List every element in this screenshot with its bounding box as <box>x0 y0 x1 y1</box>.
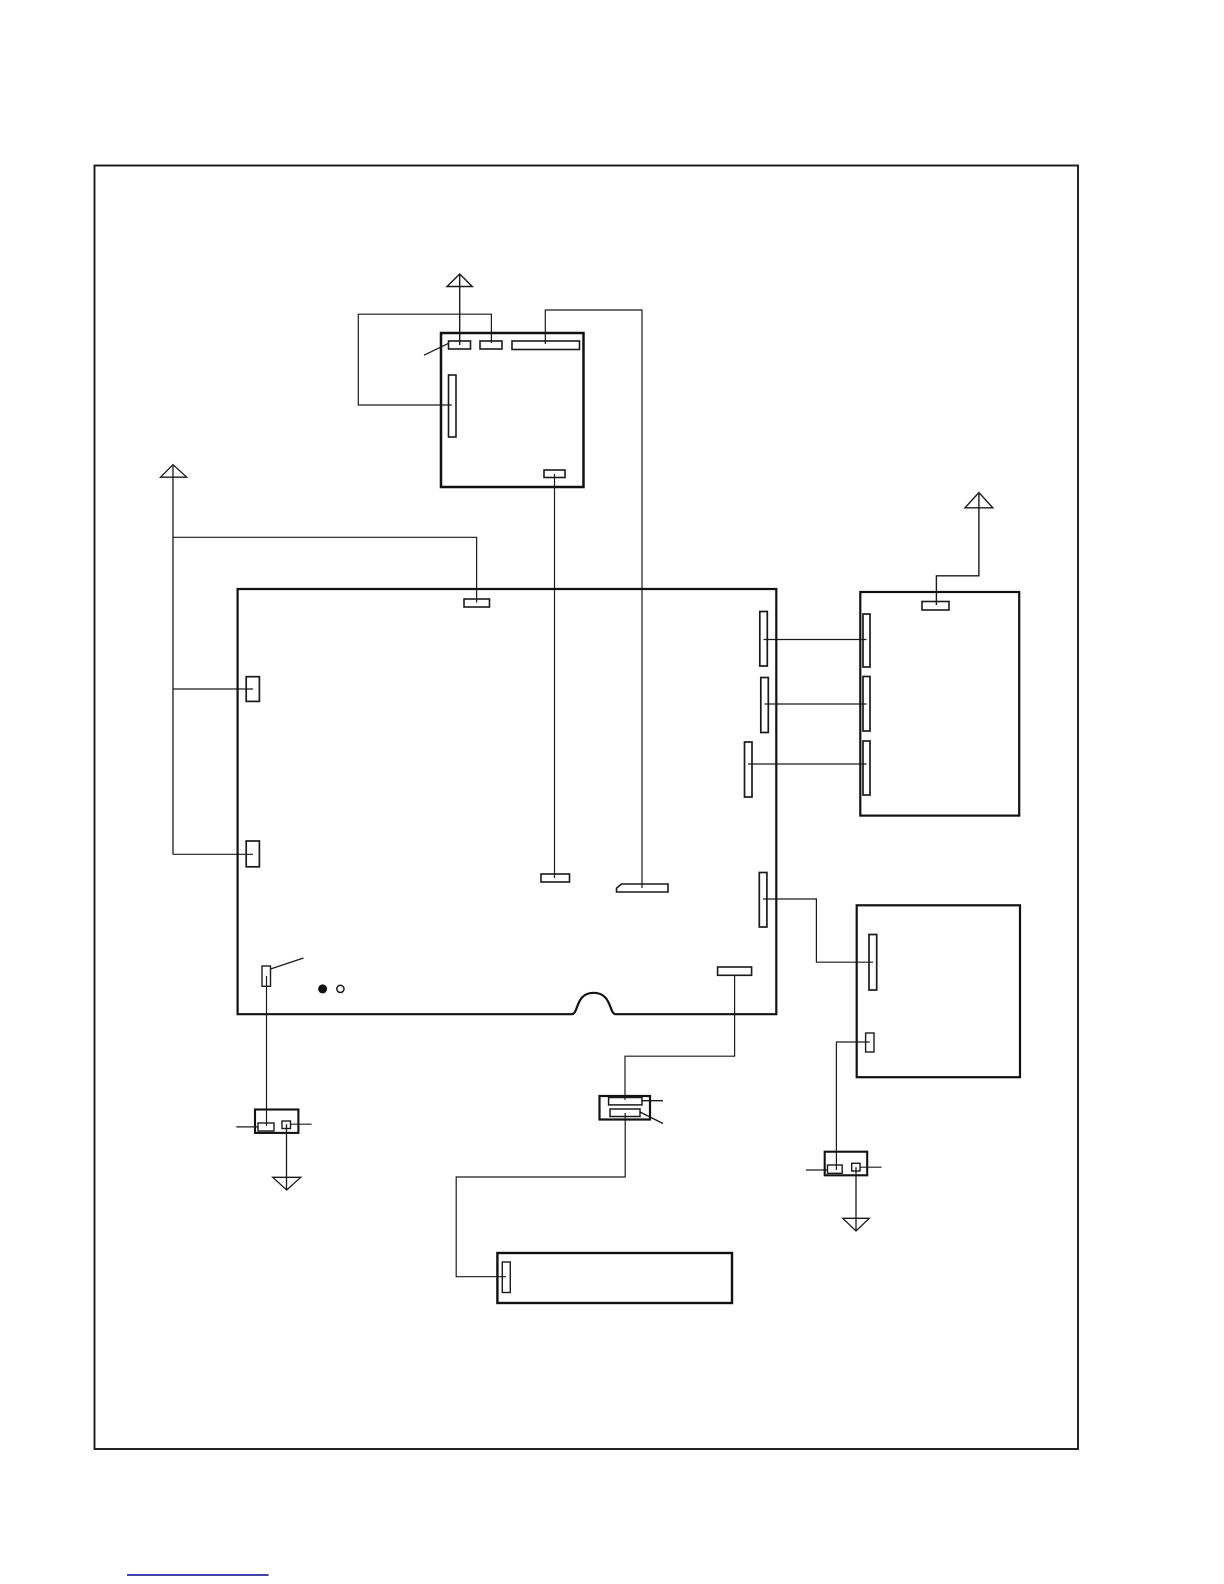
wire branch to connector T <box>173 537 477 602</box>
connector A1 <box>449 341 471 349</box>
connector BR bottom right <box>718 967 752 975</box>
connector L2 <box>246 841 259 867</box>
inline connector box E2 <box>825 1152 868 1176</box>
connector C top pin <box>922 602 949 611</box>
F terminal bottom <box>610 1109 640 1117</box>
E2 terminal right <box>852 1163 860 1171</box>
laser scanner unit box A <box>441 333 584 487</box>
connector C2 <box>863 677 870 732</box>
connector G1 <box>502 1262 510 1293</box>
wire R1 to C1 <box>764 639 867 641</box>
off-page arrow left <box>161 465 187 855</box>
E1 terminal right <box>282 1121 291 1129</box>
E1 through wire right <box>291 1123 312 1125</box>
LED indicator filled <box>318 984 327 993</box>
E2 terminal left <box>828 1165 843 1173</box>
interlock switch <box>262 966 271 986</box>
wire from connector A5 to connector M1 <box>554 474 556 878</box>
wire branch to connector L2 <box>173 853 253 855</box>
power supply box C <box>860 592 1019 816</box>
wire from switch to connector box E1 <box>266 976 268 1126</box>
connector A2 <box>480 341 502 349</box>
connector T top <box>464 599 490 607</box>
wire R3 to C3 <box>748 763 867 765</box>
wire BR to F <box>625 975 735 1100</box>
switch actuator leader <box>271 958 304 969</box>
wire loop to connectors A2 and A4 <box>358 314 491 405</box>
connector A5 bottom <box>544 470 565 478</box>
E2 through wire right <box>860 1166 882 1168</box>
E1 terminal left <box>258 1123 274 1131</box>
leader line at connector A1 <box>424 343 449 355</box>
cartridge memory box G <box>497 1253 732 1303</box>
wire R2 to C2 <box>765 703 867 705</box>
LED indicator open <box>337 985 344 992</box>
connector L1 <box>246 677 259 702</box>
E1 through wire <box>236 1126 258 1128</box>
connector R4 <box>759 873 767 928</box>
wire from connector A3 to connector M2 <box>545 310 642 888</box>
off-page arrow right <box>936 493 992 606</box>
hyperlink underline <box>127 1574 269 1576</box>
connector A4 vertical <box>449 375 457 437</box>
connector R1 <box>760 612 768 667</box>
F terminal top <box>609 1098 642 1105</box>
inline connector box F <box>600 1096 651 1120</box>
fuser unit box D <box>857 905 1020 1077</box>
E2 through wire <box>806 1169 828 1171</box>
wire D2 to connector box E2 <box>836 1042 869 1170</box>
connector R3 <box>745 742 753 797</box>
inline connector box E1 <box>255 1110 298 1133</box>
F leader line <box>640 1112 663 1124</box>
connector C3 <box>863 741 870 795</box>
ground symbol E1 <box>273 1124 301 1190</box>
connector M1 <box>541 874 570 882</box>
connector R2 <box>761 678 769 733</box>
connector C1 <box>863 614 870 667</box>
page frame border <box>95 166 1079 1450</box>
engine controller board box B with cable notch <box>238 589 777 1014</box>
wire R4 to D1 <box>763 899 873 962</box>
wire branch to connector L1 <box>173 688 253 690</box>
wire F to G <box>456 1113 625 1277</box>
connector D2 <box>866 1033 874 1052</box>
off-page arrow top <box>447 274 472 345</box>
ground symbol E2 <box>843 1167 869 1231</box>
connector A3 <box>512 341 580 350</box>
connector M2 beveled <box>617 884 669 892</box>
F right stub wire <box>642 1100 663 1102</box>
connector D1 <box>869 935 877 991</box>
